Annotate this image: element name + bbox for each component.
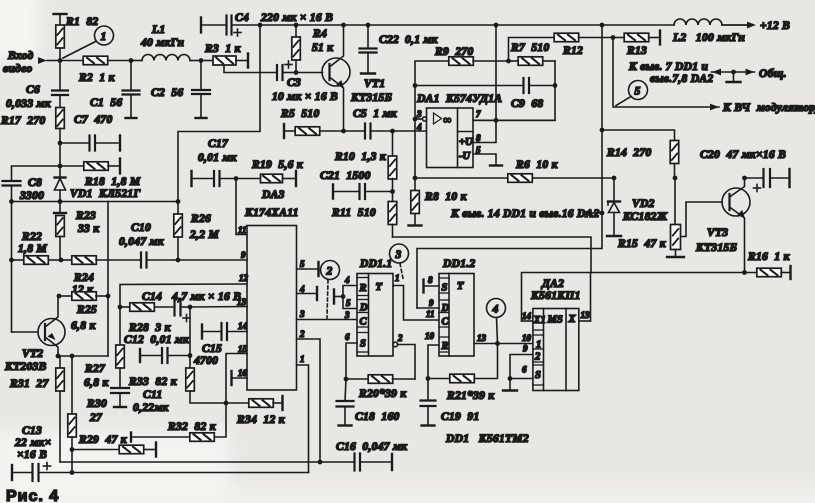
svg-text:R11 510: R11 510 xyxy=(331,207,376,219)
label -U xyxy=(459,151,471,162)
svg-text:7: 7 xyxy=(476,109,481,119)
label cell 1 xyxy=(536,340,541,351)
svg-text:5: 5 xyxy=(300,259,305,269)
label S dd12 xyxy=(442,283,448,294)
svg-text:видео: видео xyxy=(3,63,32,75)
svg-text:R8 10 к: R8 10 к xyxy=(424,191,468,203)
label R22 xyxy=(18,231,47,255)
svg-text:VT1: VT1 xyxy=(364,78,385,90)
label VD1 xyxy=(70,188,141,200)
node 3 circle xyxy=(390,244,409,263)
capacitor C7 xyxy=(60,136,120,151)
svg-text:9: 9 xyxy=(429,298,434,308)
resistor R31 xyxy=(56,356,65,462)
node C9 left xyxy=(413,83,418,88)
pin5 label dd11 xyxy=(346,298,351,308)
wire R12 corner xyxy=(509,38,556,62)
label R19 xyxy=(251,159,304,171)
svg-text:R5 510: R5 510 xyxy=(280,108,320,120)
label R15 xyxy=(617,238,667,250)
svg-text:С14: С14 xyxy=(142,291,162,303)
resistor R28 xyxy=(120,303,175,312)
wire base VT1 xyxy=(296,72,323,74)
label VT1 xyxy=(350,78,392,104)
svg-text:4: 4 xyxy=(344,275,350,285)
svg-text:R: R xyxy=(441,341,449,352)
label C3 xyxy=(287,77,301,89)
label D dd12 xyxy=(441,303,450,314)
pin 12 wire C14 top xyxy=(120,284,247,307)
capacitor C1 xyxy=(123,61,140,119)
svg-text:R19 5,6 к: R19 5,6 к xyxy=(251,159,304,171)
transistor VT1 xyxy=(322,25,350,131)
svg-text:R9 270: R9 270 xyxy=(434,46,474,58)
node 2 circle xyxy=(321,261,340,280)
capacitor C8 xyxy=(3,166,61,202)
label DA1 xyxy=(416,93,502,105)
pin 3 label xyxy=(299,309,305,319)
label S dd11 xyxy=(360,339,366,350)
label R27 xyxy=(84,363,109,389)
plus C14 xyxy=(183,315,190,322)
pin6 wire da2 xyxy=(510,378,533,380)
resistor R21 xyxy=(428,374,474,383)
pin10 label dd12 xyxy=(425,331,435,341)
op-amp DA1 box xyxy=(427,108,474,168)
op-amp symbol xyxy=(434,113,452,127)
label C19 xyxy=(441,411,480,423)
svg-text:С13: С13 xyxy=(22,425,42,437)
wire row 356 xyxy=(58,355,108,357)
svg-text:R6 10 к: R6 10 к xyxy=(515,159,559,171)
svg-text:R27: R27 xyxy=(84,363,106,375)
svg-text:С16 0,047 мк: С16 0,047 мк xyxy=(336,441,408,453)
ic DD1.2 box xyxy=(439,274,474,357)
svg-text:3: 3 xyxy=(299,309,305,319)
label C5 xyxy=(353,108,398,120)
callout line to circle 1 xyxy=(63,42,96,59)
label R4 xyxy=(312,28,334,54)
svg-text:6: 6 xyxy=(522,365,527,375)
pin 1 wire xyxy=(297,365,309,473)
svg-text:X: X xyxy=(568,314,577,325)
label C1 xyxy=(90,97,122,109)
wire pin15 to R32 xyxy=(214,403,226,437)
node 1 circle xyxy=(95,26,114,45)
label R33 xyxy=(128,376,178,388)
svg-text:R17 270: R17 270 xyxy=(0,115,46,127)
svg-text:R32 82 к: R32 82 к xyxy=(167,421,217,433)
resistor R12 xyxy=(554,33,613,42)
svg-text:R: R xyxy=(359,283,367,294)
label R21 xyxy=(446,390,495,402)
pin9 wire da2 xyxy=(510,355,533,379)
svg-text:С12 0,01 мк: С12 0,01 мк xyxy=(124,334,190,346)
resistor R10 xyxy=(388,131,397,192)
node pin45 tie xyxy=(341,294,346,299)
node R34 left xyxy=(224,401,229,406)
capacitor C2 xyxy=(192,61,210,119)
label C6 xyxy=(6,84,52,110)
node VD2 top xyxy=(612,176,617,181)
wire x555 xyxy=(473,61,555,120)
svg-text:КТ315Б: КТ315Б xyxy=(695,242,737,254)
pin8 label xyxy=(476,133,481,143)
node rail R4 xyxy=(294,23,299,28)
pin 15 label xyxy=(238,344,248,354)
label R14 xyxy=(606,147,652,159)
pin9 label dd12 xyxy=(429,298,434,308)
svg-text:R24: R24 xyxy=(73,272,94,284)
pin 5 stub xyxy=(473,154,502,166)
pin 7 stub xyxy=(473,119,555,121)
node rail x496 xyxy=(494,23,499,28)
pin 14 label xyxy=(238,321,248,331)
svg-text:С5 1 мк: С5 1 мк xyxy=(353,108,398,120)
svg-text:C: C xyxy=(360,317,368,328)
pin5 label xyxy=(476,145,481,155)
svg-text:0,047 мк: 0,047 мк xyxy=(119,236,165,248)
zener VD2 xyxy=(607,178,621,236)
svg-text:1,8 М: 1,8 М xyxy=(18,243,47,255)
svg-text:0,01 мк: 0,01 мк xyxy=(198,152,238,164)
pin14 label da2 xyxy=(522,311,532,321)
capacitor C20 xyxy=(745,169,790,187)
svg-text:R34 12 к: R34 12 к xyxy=(236,414,286,426)
svg-text:С20 47 мк×16 В: С20 47 мк×16 В xyxy=(700,149,786,161)
svg-text:0,1 мк: 0,1 мк xyxy=(405,34,439,46)
svg-text:4: 4 xyxy=(299,284,305,294)
label input Вход видео xyxy=(3,50,33,75)
label C20 xyxy=(700,149,786,161)
svg-text:1: 1 xyxy=(395,273,400,283)
svg-text:R33 82 к: R33 82 к xyxy=(128,376,178,388)
label C7 xyxy=(74,114,113,126)
svg-text:К174ХА11: К174ХА11 xyxy=(244,207,299,219)
capacitor C5 xyxy=(344,124,393,139)
wire rail xyxy=(260,24,747,26)
svg-text:С9 68: С9 68 xyxy=(511,98,543,110)
label R1 xyxy=(65,16,98,28)
resistor R30 xyxy=(68,356,77,450)
svg-text:S: S xyxy=(360,339,366,350)
pin 15 wire xyxy=(226,354,247,404)
wire R3 tap to C3 xyxy=(224,65,277,73)
svg-text:33 к: 33 к xyxy=(77,223,100,235)
pin 12 label xyxy=(239,273,249,283)
label R30 xyxy=(86,398,107,424)
capacitor C6 xyxy=(52,61,68,109)
svg-text:R10 1,3 к: R10 1,3 к xyxy=(334,151,387,163)
svg-text:VT2: VT2 xyxy=(22,348,43,360)
resistor R7 xyxy=(509,57,556,66)
pin10 wire dd12 xyxy=(428,345,439,379)
svg-text:С15: С15 xyxy=(202,343,222,355)
svg-text:С1 56: С1 56 xyxy=(90,97,122,109)
node rail C4 xyxy=(258,23,263,28)
capacitor C18 xyxy=(337,379,354,426)
wire to DA1 pin4 xyxy=(393,130,427,132)
svg-text:Вход: Вход xyxy=(7,50,33,62)
dashed callout 2 xyxy=(327,280,328,318)
capacitor C15 xyxy=(202,323,247,340)
capacitor C12 xyxy=(140,348,190,363)
svg-text:D: D xyxy=(359,303,368,314)
svg-text:4: 4 xyxy=(416,122,422,132)
node R25 right xyxy=(106,294,111,299)
label T dd12 xyxy=(457,281,464,292)
svg-text:9: 9 xyxy=(241,250,246,260)
pin 2 wire xyxy=(297,339,321,462)
resistor R14 xyxy=(670,141,679,179)
svg-text:6: 6 xyxy=(345,332,350,342)
svg-text:R22: R22 xyxy=(21,231,42,243)
node pin3 xyxy=(413,117,418,122)
svg-text:С11: С11 xyxy=(143,389,162,401)
diode VD1 xyxy=(55,166,66,202)
label R5 xyxy=(280,108,320,120)
svg-text:×16 В: ×16 В xyxy=(17,449,47,461)
node rail VT1 xyxy=(341,23,346,28)
pin 4 stub xyxy=(297,287,318,300)
wire VT2 base xyxy=(12,331,39,333)
label C4 xyxy=(235,12,249,24)
svg-text:5: 5 xyxy=(635,86,641,98)
label R8 xyxy=(424,191,468,203)
node rail C22 xyxy=(366,23,371,28)
label VD2 xyxy=(622,198,668,223)
svg-text:R29 47 к: R29 47 к xyxy=(78,434,128,446)
svg-text:-U: -U xyxy=(459,151,471,162)
plus C20 xyxy=(754,185,761,192)
node R28 left xyxy=(118,305,123,310)
pin13 label dd12 xyxy=(477,333,487,343)
resistor R19 xyxy=(236,171,296,186)
svg-text:2: 2 xyxy=(326,266,333,278)
svg-text:14: 14 xyxy=(238,321,248,331)
svg-text:X1: X1 xyxy=(533,315,546,326)
node VD1 bottom xyxy=(58,199,63,204)
pin6 wire dd11 xyxy=(346,343,357,379)
svg-text:R1 82: R1 82 xyxy=(65,16,98,28)
svg-text:3300: 3300 xyxy=(19,190,44,202)
resistor R33 xyxy=(186,356,226,404)
pin 5 stub xyxy=(297,262,319,276)
svg-text:51 к: 51 к xyxy=(312,42,334,54)
label L2 xyxy=(672,32,745,44)
svg-text:Общ.: Общ. xyxy=(759,68,787,80)
pin13 label da2 xyxy=(581,310,591,320)
pin1 wire dd11 xyxy=(393,286,439,321)
node pin7 xyxy=(494,118,499,123)
svg-text:D: D xyxy=(441,303,450,314)
svg-text:R25: R25 xyxy=(76,304,97,316)
node C3 R4 junction xyxy=(294,70,299,75)
node C5 R10 xyxy=(390,129,395,134)
label R dd12 xyxy=(441,341,449,352)
wire R11 to DA2 xyxy=(393,237,592,273)
node input junction xyxy=(58,58,63,63)
label C8 xyxy=(19,177,44,202)
svg-text:13: 13 xyxy=(237,297,247,307)
pin 1 label xyxy=(300,354,305,364)
svg-text:DA3: DA3 xyxy=(261,189,285,201)
wire x72 down xyxy=(71,450,73,473)
dashed callout 3 xyxy=(400,264,404,282)
pin3 label dd11 xyxy=(344,310,350,320)
capacitor C22 xyxy=(360,25,377,74)
svg-text:6,8 к: 6,8 к xyxy=(71,320,96,332)
node R14 R15 xyxy=(673,176,678,181)
capacitor C3 xyxy=(277,65,296,80)
node pin13 x497 xyxy=(495,341,500,346)
wire x602 down xyxy=(417,25,602,308)
svg-text:T: T xyxy=(376,282,383,293)
ic DD1.1 box xyxy=(357,274,393,357)
label RF modulator xyxy=(722,102,815,114)
transistor VT3 xyxy=(722,178,750,273)
node R25 left xyxy=(57,294,62,299)
resistor R20 xyxy=(346,375,415,384)
pin 3 wire xyxy=(297,319,358,321)
label R26 xyxy=(189,213,219,241)
pin45 terminal xyxy=(334,290,343,304)
svg-text:К561КП1: К561КП1 xyxy=(530,290,581,302)
resistor R11 xyxy=(388,192,397,238)
plus C3 xyxy=(285,61,292,68)
svg-text:8: 8 xyxy=(428,275,433,285)
svg-text:1: 1 xyxy=(300,354,305,364)
capacitor C16 xyxy=(318,454,392,471)
svg-text:С21 1500: С21 1500 xyxy=(320,170,371,182)
label C16 xyxy=(336,441,408,453)
pin 13 label xyxy=(237,297,247,307)
svg-text:R20*39 к: R20*39 к xyxy=(358,388,407,400)
pin3 label xyxy=(416,109,422,119)
label MS xyxy=(547,315,563,326)
pin 11 label xyxy=(238,225,247,235)
pin11 label dd12 xyxy=(426,309,435,319)
resistor R4 xyxy=(292,25,301,73)
node VT3 collector xyxy=(742,176,747,181)
svg-text:L1: L1 xyxy=(151,24,165,36)
resistor R17 xyxy=(56,108,65,144)
node R5 VT1 xyxy=(341,129,346,134)
svg-text:VT3: VT3 xyxy=(707,227,728,239)
label R31 xyxy=(9,378,49,390)
label DA3 xyxy=(244,189,299,219)
pin4 wire dd11 xyxy=(343,286,357,309)
wire x260 down xyxy=(178,25,260,202)
pin10 label da2 xyxy=(522,333,532,343)
resistor R13 xyxy=(613,31,660,45)
svg-text:С4: С4 xyxy=(235,12,249,24)
label R16 xyxy=(747,251,791,263)
node row202 left xyxy=(9,199,14,204)
pin2 circle dd11 xyxy=(393,342,398,347)
svg-text:∞: ∞ xyxy=(443,115,452,127)
label cell S xyxy=(535,370,541,381)
svg-text:5: 5 xyxy=(476,145,481,155)
label R7 xyxy=(510,42,550,54)
svg-text:С6: С6 xyxy=(26,84,40,96)
wire R14 top xyxy=(602,130,675,141)
svg-text:3: 3 xyxy=(416,109,422,119)
pin9 label da2 xyxy=(523,344,528,354)
svg-text:1: 1 xyxy=(536,340,541,351)
svg-text:4: 4 xyxy=(492,304,499,316)
resistor R18 xyxy=(60,159,120,174)
label R34 xyxy=(236,414,286,426)
node pin6 da2 xyxy=(508,376,513,381)
svg-text:11: 11 xyxy=(426,309,435,319)
wire R17-R18 xyxy=(59,143,61,166)
svg-text:MS: MS xyxy=(547,315,563,326)
svg-text:1: 1 xyxy=(101,31,107,43)
pin9 wire dd12 xyxy=(417,307,439,309)
resistor R2 xyxy=(60,56,131,64)
node row260 C10 xyxy=(176,258,181,263)
svg-text:DD1.2: DD1.2 xyxy=(442,258,476,270)
resistor R9 xyxy=(449,57,509,66)
svg-text:КС182Ж: КС182Ж xyxy=(622,211,668,223)
svg-text:VD2: VD2 xyxy=(632,198,655,210)
svg-text:R13: R13 xyxy=(626,45,647,57)
svg-text:Рис. 4: Рис. 4 xyxy=(6,488,59,503)
svg-text:КТ203В: КТ203В xyxy=(4,361,47,373)
label C3 value xyxy=(272,91,338,103)
resistor R22 xyxy=(12,256,62,264)
label +12V xyxy=(760,20,790,32)
node R18 junction xyxy=(58,164,63,169)
svg-text:DD1.1: DD1.1 xyxy=(359,258,393,270)
callout line 5 xyxy=(616,97,631,106)
resistor R25 xyxy=(59,292,108,301)
resistor R34 xyxy=(226,396,283,410)
pin 9 stub xyxy=(246,259,248,261)
svg-text:8: 8 xyxy=(476,133,481,143)
svg-text:К выв. 14 DD1 и выв.16 DA2: К выв. 14 DD1 и выв.16 DA2 xyxy=(450,208,600,220)
svg-text:С10: С10 xyxy=(131,222,151,234)
label C10 xyxy=(119,222,165,248)
svg-text:2: 2 xyxy=(397,333,403,343)
label R29 xyxy=(78,434,128,446)
svg-text:6,8 к: 6,8 к xyxy=(84,377,109,389)
resistor R27 xyxy=(116,307,125,368)
label DD1 type xyxy=(445,433,529,445)
label R2 xyxy=(78,72,116,84)
label R24 xyxy=(72,272,94,296)
svg-text:С7 470: С7 470 xyxy=(74,114,113,126)
wire x108 down xyxy=(107,202,109,357)
svg-text:VD1 КЛ521Г: VD1 КЛ521Г xyxy=(70,188,141,200)
pin 5 label xyxy=(300,259,305,269)
wire rail left bar xyxy=(201,18,227,33)
node C17 R19 xyxy=(234,176,239,181)
pin2 wire dd11 xyxy=(398,345,415,380)
svg-text:С8: С8 xyxy=(28,177,42,189)
plus C13 xyxy=(44,463,51,470)
label C21 xyxy=(320,170,371,182)
svg-text:С17: С17 xyxy=(208,138,229,150)
capacitor C14 xyxy=(175,299,191,316)
label C15 xyxy=(193,343,222,367)
ground symbol obsh xyxy=(712,69,755,82)
svg-text:КТ315Б: КТ315Б xyxy=(350,92,392,104)
label C9 xyxy=(511,98,543,110)
svg-text:13: 13 xyxy=(477,333,487,343)
node row356 left xyxy=(56,354,61,359)
